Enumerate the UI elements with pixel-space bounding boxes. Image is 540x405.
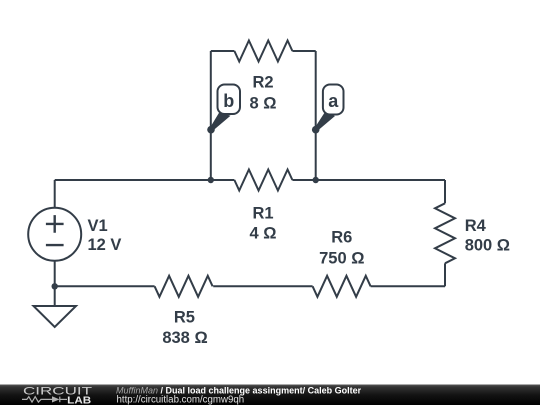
svg-text:R5: R5 xyxy=(174,308,195,326)
node dot bottom left xyxy=(52,283,58,289)
svg-text:http://circuitlab.com/cgmw9qh: http://circuitlab.com/cgmw9qh xyxy=(117,394,245,405)
wire top horizontal right xyxy=(292,50,315,52)
voltage source V1 xyxy=(28,208,81,261)
svg-text:a: a xyxy=(328,91,339,111)
svg-text:800 Ω: 800 Ω xyxy=(465,236,510,254)
svg-text:b: b xyxy=(223,91,234,111)
wire bottom middle xyxy=(213,285,312,287)
svg-text:R4: R4 xyxy=(465,217,487,235)
wire bottom left xyxy=(55,285,155,287)
ground xyxy=(34,306,77,327)
resistor R4 xyxy=(435,203,455,263)
wire middle horizontal left xyxy=(55,179,235,181)
wire bottom right xyxy=(371,285,445,287)
node dot junction left xyxy=(208,177,214,183)
node b dot xyxy=(207,126,215,134)
node a dot xyxy=(312,126,320,134)
resistor R1 xyxy=(234,170,292,191)
svg-text:LAB: LAB xyxy=(67,394,91,405)
svg-text:R2: R2 xyxy=(252,73,273,91)
resistor R5 xyxy=(155,276,213,297)
flag b box xyxy=(218,85,241,115)
svg-text:R6: R6 xyxy=(331,229,352,247)
svg-text:R1: R1 xyxy=(252,204,273,222)
logo diode triangle xyxy=(52,396,60,402)
wire left rail top xyxy=(54,180,56,208)
node dot junction right xyxy=(313,177,319,183)
svg-text:12 V: 12 V xyxy=(88,236,122,254)
svg-text:V1: V1 xyxy=(88,217,108,235)
flag a pointer xyxy=(315,112,335,131)
svg-text:750 Ω: 750 Ω xyxy=(319,250,364,268)
svg-text:838 Ω: 838 Ω xyxy=(162,329,207,347)
wire right rail top xyxy=(444,180,446,203)
wire top horizontal left xyxy=(211,50,235,52)
wire middle horizontal right xyxy=(292,179,445,181)
flag b pointer xyxy=(210,112,231,131)
wire top-left vertical xyxy=(210,51,212,180)
resistor R2 xyxy=(234,41,292,62)
wire left rail bottom xyxy=(54,261,56,306)
resistor R6 xyxy=(313,276,371,297)
flag a box xyxy=(323,85,344,115)
wire top-right vertical xyxy=(315,51,317,180)
wire right rail bottom xyxy=(444,263,446,286)
svg-text:8 Ω: 8 Ω xyxy=(250,95,277,113)
svg-text:4 Ω: 4 Ω xyxy=(250,224,277,242)
logo resistor-diode symbol xyxy=(22,397,67,403)
